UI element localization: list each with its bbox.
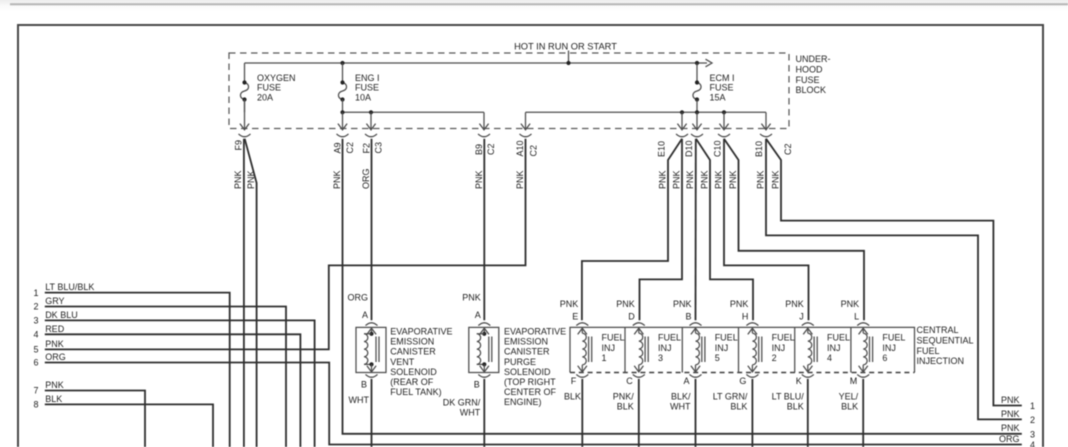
svg-text:INJ: INJ (602, 343, 616, 353)
svg-text:HOOD: HOOD (796, 65, 824, 75)
svg-text:6: 6 (882, 353, 887, 363)
wire label PNK (246, 170, 256, 189)
pin label C2 (783, 143, 793, 155)
svg-text:H: H (742, 312, 749, 322)
svg-text:ORG: ORG (361, 168, 371, 189)
svg-text:4: 4 (827, 353, 832, 363)
wire label BLK/ WHT (670, 391, 691, 411)
svg-text:PNK: PNK (685, 170, 695, 189)
injector U2 bottom terminal G (739, 366, 758, 386)
wire injector U2 output (751, 379, 753, 447)
svg-text:CENTER OF: CENTER OF (504, 387, 557, 397)
wire pin 7 PNK (45, 391, 145, 447)
injector U2 core (759, 337, 762, 363)
svg-text:RED: RED (45, 324, 65, 334)
pin label B9 (474, 144, 484, 155)
solenoid L2 purge description (504, 327, 566, 408)
svg-text:E: E (572, 312, 578, 322)
node ECM dist E10 (680, 110, 684, 114)
pin label C3 (374, 142, 384, 154)
injector U1 core (589, 337, 592, 363)
svg-text:2: 2 (772, 353, 777, 363)
terminal exit A9 arrow (337, 112, 349, 136)
svg-text:D: D (628, 312, 635, 322)
svg-text:B9: B9 (474, 144, 484, 155)
wire label DK GRN/ WHT (443, 397, 481, 417)
injector U4 top terminal J (785, 299, 814, 335)
wire A10 PNK to left pin5 (45, 139, 526, 350)
wire B9 PNK to purge solenoid (483, 139, 485, 321)
wire B10 PNK right branch to right edge pin1 (766, 139, 1022, 406)
svg-text:FUSE: FUSE (257, 83, 281, 93)
solenoid L2 purge core (489, 337, 492, 363)
wire label PNK (700, 170, 710, 189)
svg-text:PNK: PNK (785, 299, 804, 309)
right pin 4 label ORG (999, 434, 1035, 447)
node ECM dist D10 (695, 110, 699, 114)
injector U2 coil (752, 328, 756, 372)
pin label F9 (234, 140, 244, 151)
svg-text:A: A (475, 310, 481, 320)
terminal exit A10 arrow (520, 112, 532, 136)
injector U4 core (814, 337, 817, 363)
svg-text:SOLENOID: SOLENOID (390, 367, 437, 377)
node ENG dist F2 (369, 110, 373, 114)
wire label YEL/ BLK (839, 391, 859, 411)
svg-text:B: B (361, 380, 367, 390)
svg-text:3: 3 (33, 316, 38, 326)
svg-text:BLK: BLK (617, 402, 634, 412)
svg-text:WHT: WHT (349, 395, 370, 405)
svg-text:VENT: VENT (390, 357, 415, 367)
wire label PNK (515, 170, 525, 189)
svg-text:HOT IN RUN OR START: HOT IN RUN OR START (514, 41, 617, 51)
svg-text:FUEL TANK): FUEL TANK) (390, 387, 441, 397)
right pin 3 label PNK (1001, 423, 1035, 439)
wire D10 PNK left branch to injector5 B (695, 139, 697, 321)
pin label F2 (361, 143, 371, 154)
solenoid L1 vent description (390, 327, 452, 398)
pin label C2 (345, 142, 355, 154)
wire label PNK (233, 170, 243, 189)
bus wire hot feed (245, 59, 713, 67)
svg-text:EVAPORATIVE: EVAPORATIVE (504, 327, 566, 337)
svg-text:PNK: PNK (45, 380, 64, 390)
tick from label to bus (568, 51, 570, 64)
svg-text:B: B (685, 312, 691, 322)
injector U2 top terminal H (730, 299, 759, 335)
solenoid L2 purge coil (477, 332, 487, 367)
solenoid L1 vent labels (347, 292, 368, 389)
injector block separator (624, 327, 626, 372)
svg-text:2: 2 (33, 302, 38, 312)
svg-text:A: A (362, 310, 368, 320)
solenoid L1 vent B terminal connector (366, 364, 378, 377)
svg-text:ORG: ORG (999, 434, 1020, 444)
svg-text:WHT: WHT (460, 407, 481, 417)
svg-text:D10: D10 (684, 140, 694, 157)
svg-text:G: G (739, 376, 746, 386)
wire C10 PNK right branch to injector6 L (724, 139, 864, 321)
wire E10 PNK left branch to injector1 E (582, 139, 682, 321)
svg-text:B: B (474, 380, 480, 390)
node bus junction hot feed (566, 61, 570, 65)
injector U4 bottom terminal K (796, 366, 814, 386)
svg-text:PNK: PNK (728, 170, 738, 189)
wire injector U3 output (638, 379, 640, 447)
svg-text:C2: C2 (529, 145, 539, 157)
svg-text:PNK: PNK (756, 170, 766, 189)
svg-text:1: 1 (602, 353, 607, 363)
injector U2 name (772, 333, 795, 364)
wire injector U1 output (581, 379, 583, 447)
wire injector U5 output (695, 379, 697, 447)
svg-text:LT BLU/BLK: LT BLU/BLK (45, 282, 94, 292)
svg-text:1: 1 (1030, 401, 1035, 411)
wire label PNK (771, 170, 781, 189)
label UNDER-HOOD FUSE BLOCK (796, 54, 831, 95)
injector U5 top terminal B (673, 299, 702, 335)
svg-text:EMISSION: EMISSION (504, 337, 548, 347)
wire injector U4 output (807, 379, 809, 447)
svg-text:PNK: PNK (233, 170, 243, 189)
injector U3 coil (639, 328, 643, 372)
pin 7 label PNK (33, 380, 63, 396)
svg-text:SOLENOID: SOLENOID (504, 367, 551, 377)
svg-text:PNK: PNK (771, 170, 781, 189)
svg-text:(TOP RIGHT: (TOP RIGHT (504, 377, 556, 387)
injector U6 core (870, 337, 873, 363)
label HOT IN RUN OR START (514, 41, 617, 51)
wire label PNK (332, 170, 342, 189)
node ECM dist C10 (722, 110, 726, 114)
right pin 1 label PNK (1001, 395, 1035, 411)
svg-text:CANISTER: CANISTER (390, 347, 436, 357)
svg-text:PNK: PNK (474, 170, 484, 189)
solenoid L2 purge A terminal connector (478, 323, 490, 335)
injector U1 name (602, 333, 625, 364)
wire label BLK (564, 391, 581, 401)
svg-text:6: 6 (33, 358, 38, 368)
solenoid L2 purge B terminal connector (478, 364, 490, 377)
injector U5 coil (696, 328, 700, 372)
injector U3 core (645, 337, 648, 363)
svg-text:PNK: PNK (673, 299, 692, 309)
injector U6 bottom terminal M (850, 366, 870, 386)
svg-text:BLK: BLK (730, 402, 747, 412)
svg-text:INJ: INJ (882, 343, 896, 353)
terminal exit C10 arrow (718, 112, 730, 136)
wire label ORG (361, 168, 371, 189)
wire B10 PNK left branch to right edge pin2 (766, 139, 1022, 420)
svg-text:BLK: BLK (841, 402, 858, 412)
injector U3 bottom terminal C (626, 366, 645, 386)
svg-text:PNK: PNK (1001, 395, 1020, 405)
svg-text:FUSE: FUSE (796, 75, 820, 85)
svg-text:FUEL: FUEL (602, 333, 625, 343)
svg-text:A: A (683, 376, 689, 386)
svg-text:7: 7 (33, 386, 38, 396)
wire pin 8 BLK (45, 404, 213, 447)
svg-text:BLK: BLK (564, 391, 581, 401)
injector U1 coil (582, 328, 586, 372)
svg-text:INJECTION: INJECTION (917, 356, 965, 366)
svg-text:FUEL: FUEL (772, 333, 795, 343)
svg-text:PNK: PNK (672, 170, 682, 189)
terminal exit B10 arrow (760, 112, 772, 136)
pin 1 label LT BLU/BLK (33, 282, 94, 298)
wire ENG I fuse distribution (343, 111, 485, 113)
svg-text:ECM I: ECM I (710, 73, 735, 83)
pin label C2 (529, 145, 539, 157)
svg-text:10A: 10A (355, 92, 371, 102)
wire label PNK (714, 170, 724, 189)
wire ECM I fuse distribution (526, 111, 767, 113)
svg-text:C2: C2 (345, 142, 355, 154)
terminal exit B9 arrow (478, 112, 490, 136)
wire E10 PNK right branch to injector3 D (640, 139, 683, 321)
svg-text:2: 2 (1030, 415, 1035, 425)
svg-text:3: 3 (1030, 429, 1035, 439)
svg-text:5: 5 (33, 345, 38, 355)
svg-text:YEL/: YEL/ (839, 391, 859, 401)
svg-text:LT BLU/: LT BLU/ (772, 391, 805, 401)
svg-text:M: M (850, 376, 858, 386)
svg-text:PNK: PNK (45, 339, 64, 349)
injector U6 coil (863, 328, 867, 372)
svg-text:CENTRAL: CENTRAL (917, 325, 959, 335)
svg-text:C2: C2 (783, 143, 793, 155)
svg-text:A10: A10 (515, 140, 525, 156)
terminal exit F2 arrow (365, 112, 377, 136)
svg-text:SEQUENTIAL: SEQUENTIAL (917, 336, 974, 346)
svg-text:INJ: INJ (715, 343, 729, 353)
svg-text:L: L (854, 312, 859, 322)
wire F9 PNK left branch (243, 139, 245, 447)
svg-text:K: K (796, 376, 802, 386)
svg-text:LT GRN/: LT GRN/ (713, 391, 748, 401)
svg-text:F2: F2 (361, 143, 371, 154)
injector U4 name (827, 333, 850, 364)
svg-text:4: 4 (33, 330, 38, 340)
node bus junction ENG fuse (340, 61, 344, 65)
svg-text:F: F (571, 376, 577, 386)
wire solenoid L1 vent bottom WHT (371, 379, 373, 447)
wire label WHT (349, 395, 370, 405)
injector U3 top terminal D (616, 299, 645, 335)
node bus junction ECM fuse (695, 61, 699, 65)
terminal exit D10 arrow (691, 112, 703, 136)
underhood fuse block dashed box (229, 53, 789, 129)
wire label PNK/ BLK (613, 391, 635, 411)
svg-text:PNK: PNK (658, 170, 668, 189)
svg-text:5: 5 (715, 353, 720, 363)
svg-text:PURGE: PURGE (504, 357, 536, 367)
injector U6 top terminal L (841, 299, 870, 335)
pin label C10 (712, 140, 722, 157)
svg-text:ENG I: ENG I (355, 73, 380, 83)
svg-text:INJ: INJ (827, 343, 841, 353)
svg-text:ENGINE): ENGINE) (504, 397, 542, 407)
svg-text:C2: C2 (486, 143, 496, 155)
svg-text:FUEL: FUEL (658, 333, 681, 343)
svg-text:C3: C3 (374, 142, 384, 154)
wire D10 PNK right branch to injector2 H (696, 139, 753, 321)
svg-text:15A: 15A (710, 92, 726, 102)
pin 2 label GRY (33, 296, 64, 312)
svg-text:J: J (799, 312, 804, 322)
injector block separator (738, 327, 740, 372)
fuse ECM I FUSE 15A (693, 63, 735, 112)
svg-text:FUEL: FUEL (715, 333, 738, 343)
svg-text:B10: B10 (754, 141, 764, 157)
pin label D10 (684, 140, 694, 157)
svg-text:PNK/: PNK/ (613, 391, 635, 401)
wire F2 ORG to vent solenoid (371, 139, 373, 321)
svg-text:E10: E10 (657, 141, 667, 157)
svg-text:PNK: PNK (462, 292, 481, 302)
pin label A9 (333, 142, 343, 153)
wire pin 4 RED (45, 334, 301, 447)
svg-text:A9: A9 (333, 142, 343, 153)
terminal exit F9 arrow (239, 100, 251, 137)
svg-text:PNK: PNK (730, 299, 749, 309)
svg-text:BLK: BLK (787, 402, 804, 412)
pin 8 label BLK (33, 394, 62, 410)
svg-text:PNK: PNK (332, 170, 342, 189)
svg-text:EVAPORATIVE: EVAPORATIVE (390, 327, 452, 337)
svg-text:C10: C10 (712, 140, 722, 157)
solenoid L2 purge box (469, 327, 499, 372)
pin label B10 (754, 141, 764, 157)
wire pin 6 ORG to right edge pin4 (45, 363, 1022, 445)
pin label A10 (515, 140, 525, 156)
injector U6 name (882, 333, 905, 364)
injector U5 bottom terminal A (683, 366, 701, 386)
svg-text:PNK: PNK (700, 170, 710, 189)
svg-text:PNK: PNK (1001, 409, 1020, 419)
injector block separator (794, 327, 796, 372)
injector U5 name (715, 333, 738, 364)
injector U5 core (702, 337, 705, 363)
svg-text:GRY: GRY (45, 296, 64, 306)
svg-text:PNK: PNK (1001, 423, 1020, 433)
solenoid L1 vent box (356, 327, 386, 372)
svg-text:20A: 20A (257, 92, 273, 102)
node ENG dist A9 (340, 110, 344, 114)
solenoid L1 vent A terminal connector (366, 323, 378, 335)
wire label PNK (672, 170, 682, 189)
svg-text:PNK: PNK (714, 170, 724, 189)
svg-text:WHT: WHT (670, 402, 691, 412)
pin label E10 (657, 141, 667, 157)
injector block outline (570, 327, 915, 372)
wire solenoid L2 purge bottom DK GRN/ (483, 379, 485, 447)
svg-text:CANISTER: CANISTER (504, 347, 550, 357)
svg-text:PNK: PNK (560, 299, 579, 309)
wire label PNK (756, 170, 766, 189)
terminal exit E10 arrow (676, 112, 688, 136)
right pin 2 label PNK (1001, 409, 1035, 425)
svg-text:C: C (626, 376, 633, 386)
svg-text:ORG: ORG (45, 352, 66, 362)
solenoid L2 purge labels (462, 292, 481, 389)
solenoid L1 vent core (376, 337, 379, 363)
fuse ENG I FUSE 10A (338, 63, 379, 112)
svg-text:BLOCK: BLOCK (796, 85, 827, 95)
pin label C2 (486, 143, 496, 155)
svg-text:EMISSION: EMISSION (390, 337, 434, 347)
svg-text:F9: F9 (234, 140, 244, 151)
injector U3 name (658, 333, 681, 364)
svg-text:DK BLU: DK BLU (45, 310, 78, 320)
svg-text:FUEL: FUEL (827, 333, 850, 343)
svg-text:3: 3 (658, 353, 663, 363)
injector block separator (850, 327, 852, 372)
wire label LT BLU/ BLK (772, 391, 805, 411)
svg-text:PNK: PNK (515, 170, 525, 189)
svg-text:FUSE: FUSE (355, 83, 379, 93)
svg-text:BLK: BLK (45, 394, 62, 404)
pin 6 label ORG (33, 352, 65, 368)
injector block separator (681, 327, 683, 372)
pin 5 label PNK (33, 339, 63, 355)
solenoid L1 vent coil (364, 332, 374, 367)
svg-text:PNK: PNK (841, 299, 860, 309)
svg-text:FUEL: FUEL (882, 333, 905, 343)
pin 4 label RED (33, 324, 64, 340)
top edge bar (10, 3, 1068, 5)
wire C10 PNK left branch to injector4 J (724, 139, 809, 321)
wire A9 PNK to right edge pin3 (343, 139, 1022, 434)
svg-text:FUSE: FUSE (710, 83, 734, 93)
wire label LT GRN/ BLK (713, 391, 748, 411)
injector U4 coil (808, 328, 812, 372)
svg-text:DK GRN/: DK GRN/ (443, 397, 481, 407)
svg-text:(REAR OF: (REAR OF (390, 377, 434, 387)
wire pin 3 DK BLU (45, 320, 315, 447)
label CENTRAL SEQUENTIAL FUEL INJECTION (917, 325, 974, 366)
wire label PNK (728, 170, 738, 189)
wire pin 1 LT BLU/BLK (45, 293, 230, 447)
wire label PNK (658, 170, 668, 189)
svg-text:1: 1 (33, 288, 38, 298)
pin 3 label DK BLU (33, 310, 77, 326)
svg-text:8: 8 (33, 400, 38, 410)
svg-text:BLK/: BLK/ (671, 391, 691, 401)
svg-text:4: 4 (1030, 440, 1035, 447)
wire label PNK (685, 170, 695, 189)
wire injector U6 output (862, 379, 864, 447)
fuse OXYGEN FUSE 20A (240, 63, 295, 112)
svg-text:ORG: ORG (347, 292, 368, 302)
svg-text:INJ: INJ (772, 343, 786, 353)
wire label PNK (474, 170, 484, 189)
injector U1 bottom terminal F (571, 366, 589, 386)
wire F9 PNK right branch (245, 139, 257, 447)
svg-text:INJ: INJ (658, 343, 672, 353)
wire pin 2 GRY (45, 307, 286, 447)
svg-text:OXYGEN: OXYGEN (257, 73, 296, 83)
svg-text:PNK: PNK (616, 299, 635, 309)
injector U1 top terminal E (560, 299, 589, 335)
svg-text:FUEL: FUEL (917, 346, 940, 356)
svg-text:UNDER-: UNDER- (796, 54, 831, 64)
